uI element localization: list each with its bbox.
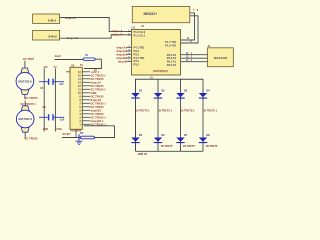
U2 right pin stubs [82,72,90,125]
wire U4 pin8 to U1 [181,16,199,43]
svg-text:DC TRV25 1: DC TRV25 1 [21,102,37,106]
svg-text:P1.1 C/L1: P1.1 C/L1 [134,33,146,37]
capacitor lead bar [78,134,80,141]
pin stub dmp1 [127,47,132,49]
wire motor M2 top [24,101,26,106]
svg-text:P0.1 A1: P0.1 A1 [167,60,177,64]
diode D6 [154,134,173,148]
wire U4 pin7 to U1 [181,13,195,40]
designator R5 [80,132,84,135]
U2 type label [70,129,82,133]
net label dmp5 [118,60,127,64]
driver IC U2 [70,63,83,129]
svg-text:DC TRV25: DC TRV25 [25,137,38,141]
svg-text:dmpsA2: dmpsA2 [116,49,127,53]
svg-text:1N TRCT5: 1N TRCT5 [206,145,219,148]
svg-text:P4.1 TB1: P4.1 TB1 [134,46,146,50]
wire U1 to J1 a [181,54,208,56]
svg-text:P0.0 A0: P0.0 A0 [167,63,177,67]
net label dmps-B [67,36,79,40]
svg-text:dmpsB2: dmpsB2 [116,56,127,60]
svg-text:DC TRV25 1: DC TRV25 1 [91,101,107,105]
designator U4 [141,25,145,28]
svg-text:5V: 5V [54,66,57,69]
wire U1 to J1 c [181,61,208,63]
diode D3 [176,89,195,112]
svg-text:DC TRV25: DC TRV25 [91,94,104,98]
svg-text:dmp5: dmp5 [55,55,62,58]
svg-text:DC TRV25 1: DC TRV25 1 [91,115,107,119]
net label dmp1 [116,46,127,50]
switch S2 [33,30,60,40]
svg-text:P0.2 A2: P0.2 A2 [167,53,177,57]
wire column B [54,68,56,131]
svg-text:P1.6 TX2: P1.6 TX2 [165,44,176,48]
net label dmp2 [116,49,127,53]
wire motor M2 bottom [24,132,26,138]
net label dmps-A [65,16,77,20]
svg-text:P1.7 TX3: P1.7 TX3 [165,40,176,44]
U2 pin numbers [78,71,81,127]
svg-text:GND: GND [43,128,49,131]
svg-text:U2: U2 [71,63,75,67]
net label 12V under U1 [150,77,153,80]
switch S1 [33,14,60,23]
svg-text:1N TRCT5: 1N TRCT5 [161,145,174,148]
diode D1 [131,89,150,112]
net label dmps-A at U1 [112,29,122,33]
svg-text:DC TRV25: DC TRV25 [25,96,38,100]
svg-text:MEI331+: MEI331+ [144,12,158,16]
pin stub dmp5 [127,61,132,63]
svg-text:GND: GND [56,128,62,131]
diode D5 [131,134,147,156]
svg-text:P3.3: P3.3 [134,63,140,67]
svg-text:dmpsB2 1: dmpsB2 1 [91,119,104,123]
diode D8 [199,134,218,148]
svg-text:GGPU(51(U): GGPU(51(U) [153,69,168,73]
diode column wire 1 [135,79,137,151]
resistor R5 body [81,136,95,139]
pin stub dmp2 [127,50,132,52]
pin numbers U1 left stubs [128,30,130,62]
wire U1 to J1 b [181,57,208,59]
svg-text:1uF: 1uF [60,118,65,121]
wire S2 to U1 [60,35,132,38]
svg-text:1uF: 1uF [59,83,64,86]
diode column wire 4 [202,79,204,151]
capacitor C9 [39,106,65,121]
svg-text:DC TRV5: DC TRV5 [23,57,35,61]
svg-text:DC TRV25 1: DC TRV25 1 [91,87,107,91]
motor M2 [16,106,34,132]
svg-text:4R/B 1N: 4R/B 1N [138,153,148,156]
capacitor C8 [39,79,64,90]
svg-text:MOTOR-8: MOTOR-8 [18,79,32,83]
svg-text:P1.0 C/L0: P1.0 C/L0 [134,30,146,34]
wire column A [43,68,45,131]
diode column wire 2 [157,79,159,151]
MCU U1 89C51 [132,25,181,75]
pin stub P1.0 [128,31,132,33]
wire U2 bottom pin [75,129,77,137]
svg-text:1N TRCT5 1: 1N TRCT5 1 [135,109,150,113]
pin stub dmp4 [127,57,132,59]
diode D7 [176,134,195,148]
pin number 11 [190,40,193,43]
net label M1 bottom [25,96,38,100]
svg-text:5V: 5V [80,64,83,67]
U2 left pin stub top [66,71,70,73]
resistor R1 [55,54,96,60]
top supply rail [136,78,204,80]
net label M1 top [23,57,35,61]
net label M2 bottom [25,137,38,141]
svg-text:1N TRCT5 1: 1N TRCT5 1 [158,109,173,113]
svg-text:dmpsB1: dmpsB1 [91,108,102,112]
svg-text:U1: U1 [132,25,136,29]
diode D2 [154,89,173,112]
pin stub dmp3 [127,54,132,56]
svg-text:dmpsA2: dmpsA2 [91,98,102,102]
svg-text:dmpsA1: dmpsA1 [91,80,102,84]
IC U4 MAX232 [132,6,190,22]
svg-text:P4.2 TB1: P4.2 TB1 [134,56,146,60]
pin number 7 [193,9,195,12]
wire S1 to U1 [60,18,132,32]
svg-text:MAX7245: MAX7245 [214,56,228,60]
pin stub P1.1 [128,34,132,36]
svg-text:1N TRCT5 1: 1N TRCT5 1 [203,109,218,113]
svg-text:dmps-B: dmps-B [112,33,122,37]
svg-text:GND: GND [91,91,97,95]
connector J1 [208,45,234,67]
net label dmp4 [116,56,127,60]
pin number 8 [197,9,199,12]
wire motor M1 top [24,61,26,68]
svg-text:dmpsE: dmpsE [118,60,127,64]
svg-text:dmpsA1: dmpsA1 [116,46,127,50]
net label dmps-B at U1 [112,33,122,37]
net label column B bottom [56,128,62,131]
svg-text:S-M+2: S-M+2 [48,34,57,38]
wire resistor to loop [84,126,115,138]
wire into resistor left [62,137,81,139]
svg-text:P3.3: P3.3 [134,52,140,56]
diode column wire 3 [180,79,182,151]
svg-text:P3.2: P3.2 [134,49,140,53]
pin number 10 [187,37,190,40]
svg-text:P0.3 A3: P0.3 A3 [167,56,177,60]
svg-text:1N TRCT5: 1N TRCT5 [183,145,196,148]
svg-text:1N TRCT5 1: 1N TRCT5 1 [180,109,195,113]
svg-text:12V: 12V [43,66,48,69]
svg-text:DC TRV25: DC TRV25 [91,105,104,109]
pin numbers J1 wires [186,52,193,62]
svg-text:DC TRV25: DC TRV25 [91,84,104,88]
net label dmp3 [116,53,127,57]
net label R9 [63,133,72,136]
net label column A top [43,66,48,69]
svg-text:DC TRV25: DC TRV25 [91,77,104,81]
ground symbol bottom [76,141,83,144]
svg-text:S-M+1: S-M+1 [48,18,57,22]
svg-text:DC TRV25: DC TRV25 [91,112,104,116]
net label column A bottom [43,128,49,131]
wire R1 to U2 [84,59,101,68]
svg-text:DC TRV25 1: DC TRV25 1 [91,73,107,77]
net label M2 top [21,102,37,106]
svg-text:dmpsB1: dmpsB1 [116,53,127,57]
motor M1 [16,68,34,94]
wire motor M1 bottom [24,94,26,99]
U2 net labels right [91,70,107,127]
bottom ground rail [136,150,204,152]
svg-text:P3.2: P3.2 [134,59,140,63]
svg-text:R9 4K7: R9 4K7 [63,133,72,136]
svg-text:dmps-A: dmps-A [65,16,77,20]
pin number 16 [94,69,97,72]
diode D4 [199,89,218,112]
svg-text:MOTOR-8: MOTOR-8 [19,117,33,121]
net label column B top [54,66,57,69]
